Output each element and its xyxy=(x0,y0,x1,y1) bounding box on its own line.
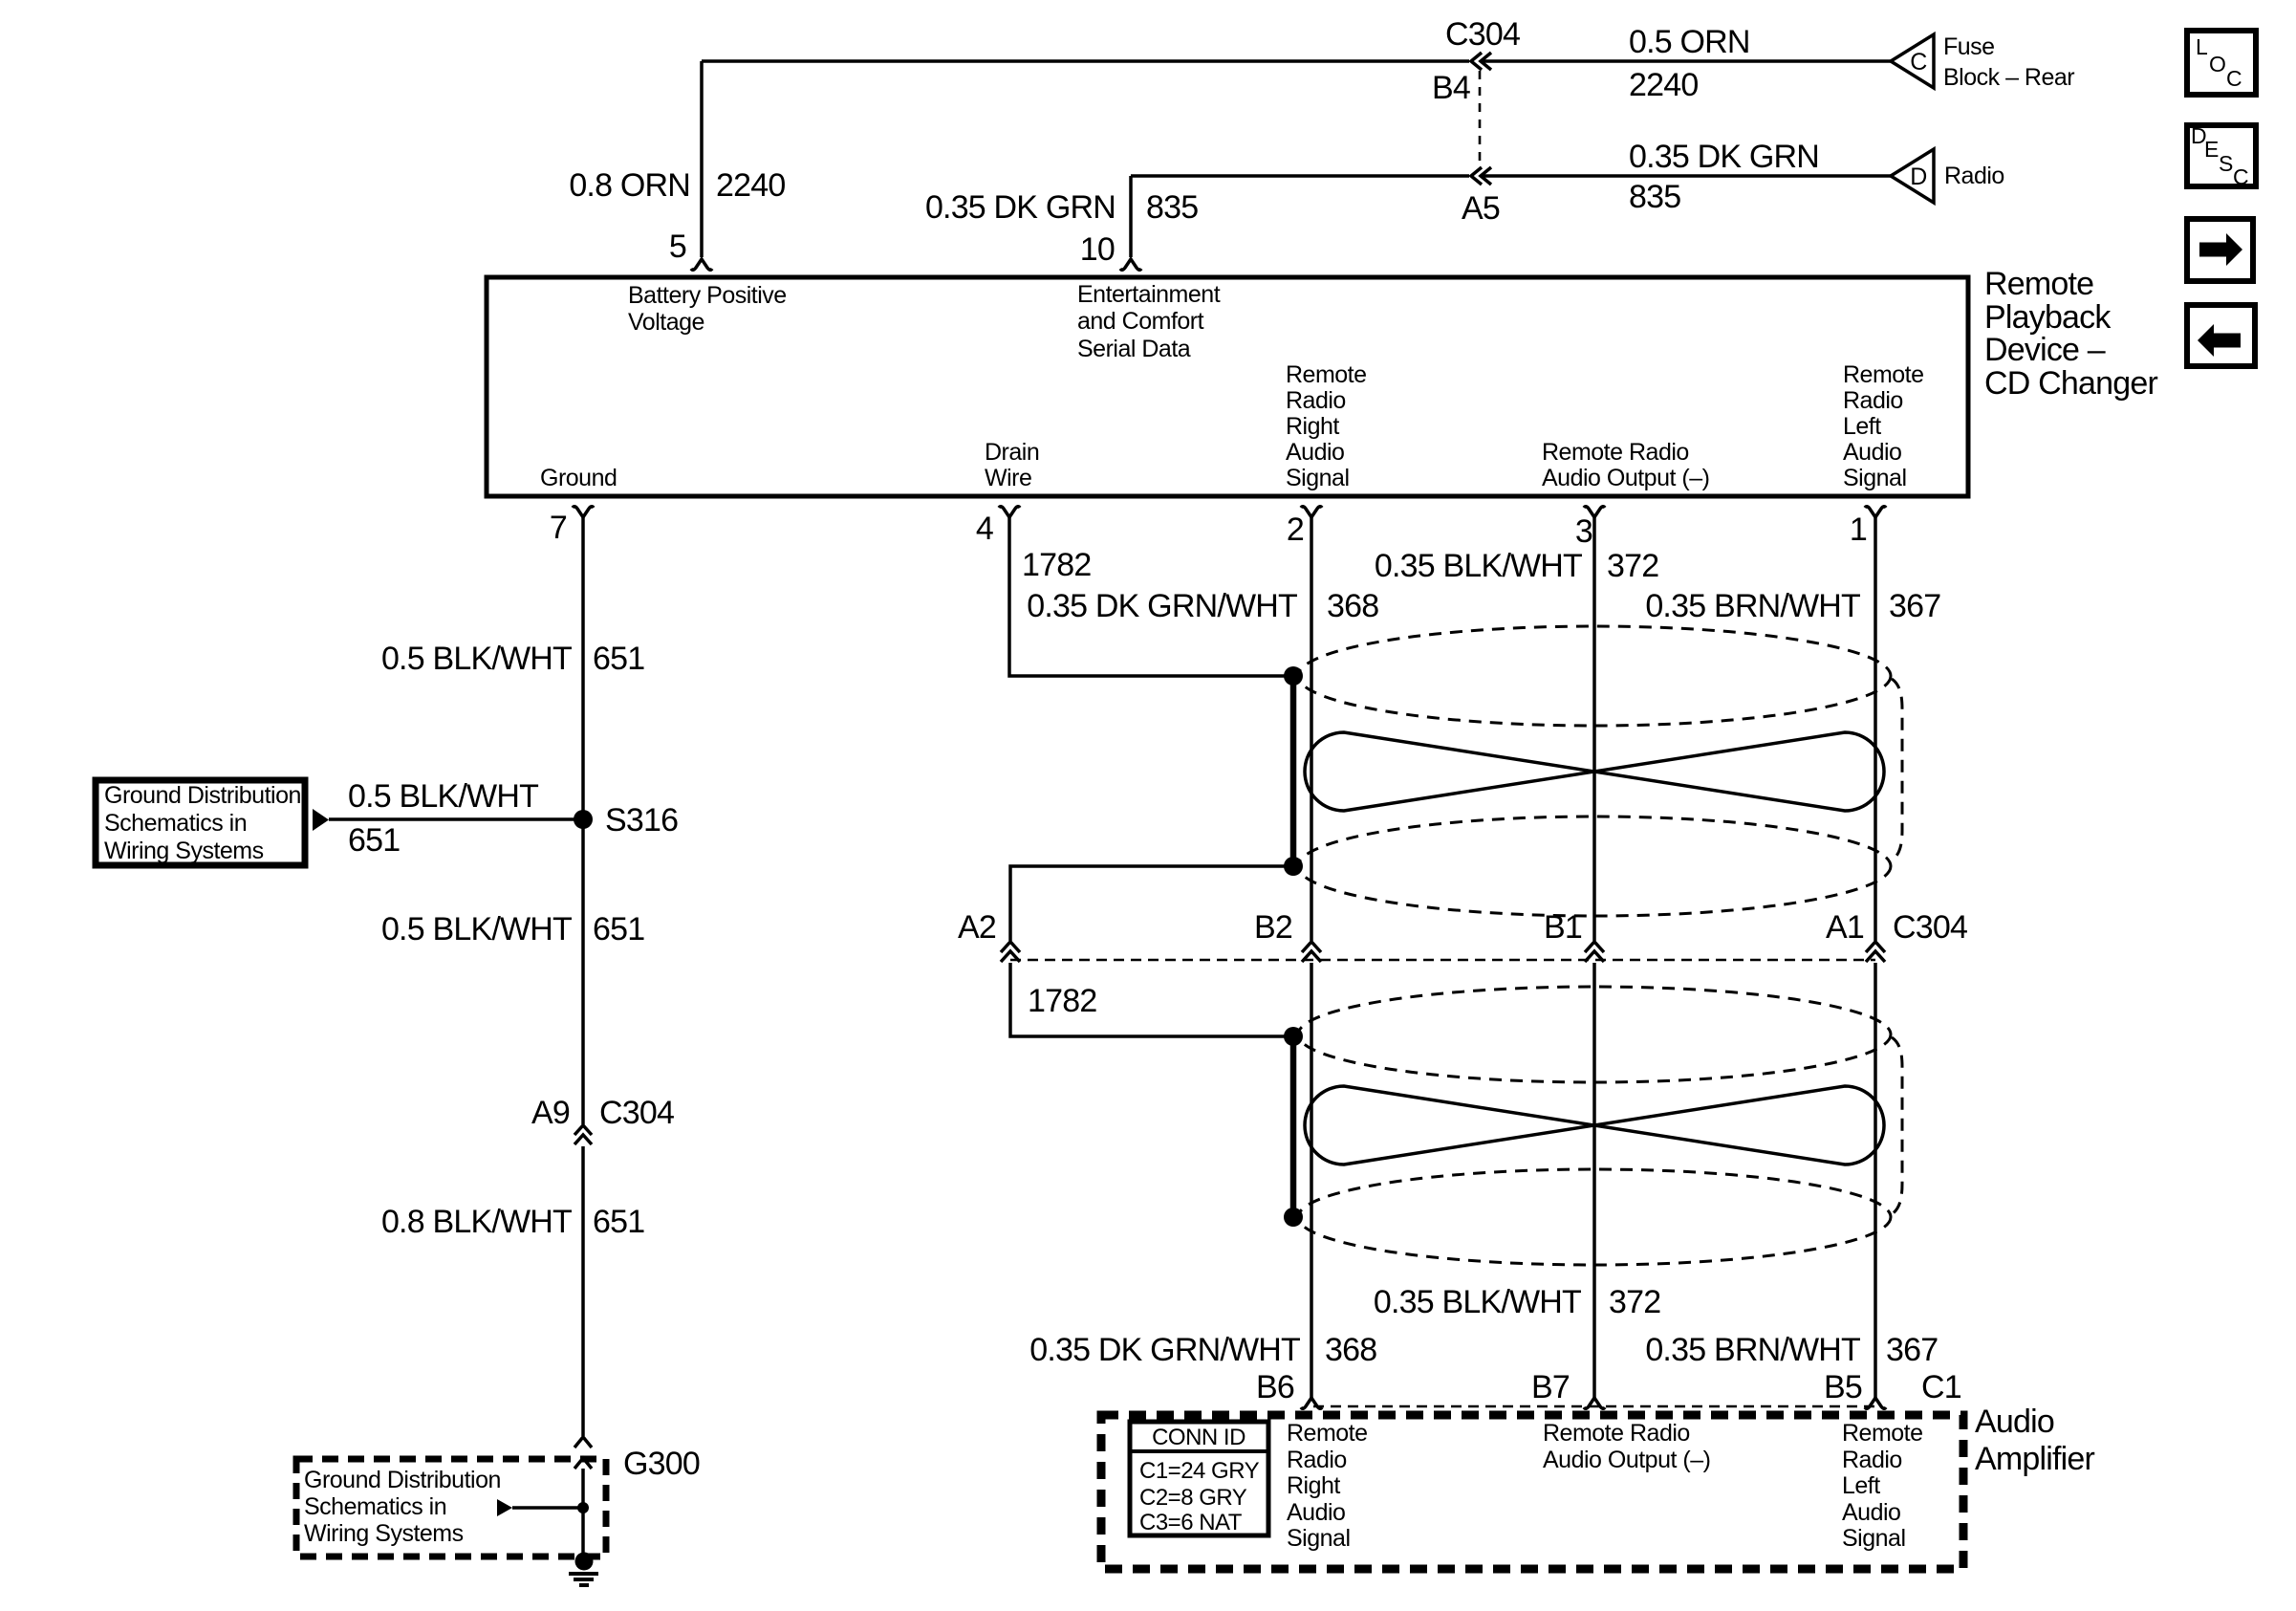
svg-text:Right: Right xyxy=(1287,1472,1340,1499)
svg-text:C1=24 GRY: C1=24 GRY xyxy=(1139,1458,1260,1484)
svg-text:368: 368 xyxy=(1327,588,1378,624)
junction dot upper shield top xyxy=(1284,666,1303,686)
svg-text:Signal: Signal xyxy=(1843,465,1907,491)
svg-text:Voltage: Voltage xyxy=(628,309,704,336)
svg-text:7: 7 xyxy=(550,510,567,546)
svg-text:B2: B2 xyxy=(1254,909,1292,946)
terminal B6 xyxy=(1301,1398,1322,1408)
svg-text:Audio: Audio xyxy=(1975,1404,2054,1440)
svg-text:2: 2 xyxy=(1287,512,1304,548)
terminal pin 5 xyxy=(691,259,712,270)
wire G300 branch from ground distribution xyxy=(512,1506,583,1510)
svg-text:C3=6 NAT: C3=6 NAT xyxy=(1139,1510,1243,1535)
svg-text:Remote Radio: Remote Radio xyxy=(1543,1420,1690,1447)
svg-text:Signal: Signal xyxy=(1287,1525,1351,1552)
svg-text:B4: B4 xyxy=(1432,70,1470,106)
splice S316 dot xyxy=(574,810,593,829)
svg-text:Radio: Radio xyxy=(1286,387,1346,414)
svg-text:O: O xyxy=(2209,52,2226,76)
svg-text:C: C xyxy=(2233,164,2249,189)
wire 3 lower xyxy=(1592,963,1596,1398)
svg-text:5: 5 xyxy=(669,229,686,265)
svg-text:C1: C1 xyxy=(1921,1369,1961,1405)
svg-text:Audio: Audio xyxy=(1286,439,1344,466)
terminal pin 10 xyxy=(1120,259,1141,270)
svg-text:Remote Radio: Remote Radio xyxy=(1542,439,1689,466)
svg-text:0.35 DK GRN: 0.35 DK GRN xyxy=(1629,139,1819,175)
ground G300 dot xyxy=(575,1553,594,1571)
svg-text:651: 651 xyxy=(348,822,400,859)
svg-text:Right: Right xyxy=(1286,413,1339,440)
terminal B5 xyxy=(1865,1398,1886,1408)
svg-text:Wiring Systems: Wiring Systems xyxy=(104,838,264,864)
svg-text:Remote: Remote xyxy=(1287,1420,1368,1447)
pointer triangle upper reference xyxy=(313,809,329,831)
svg-text:Schematics in: Schematics in xyxy=(304,1493,446,1520)
svg-text:E: E xyxy=(2204,137,2219,162)
legend LOC box xyxy=(2187,31,2256,95)
connector A9 C304 chevrons xyxy=(574,1125,592,1144)
svg-text:Radio: Radio xyxy=(1843,387,1903,414)
svg-text:Audio: Audio xyxy=(1287,1499,1345,1526)
svg-text:and Comfort: and Comfort xyxy=(1077,308,1204,335)
svg-text:B5: B5 xyxy=(1824,1369,1862,1405)
svg-text:C304: C304 xyxy=(599,1095,674,1131)
CD changer device box xyxy=(487,277,1968,496)
junction dot upper shield bottom xyxy=(1284,857,1303,876)
svg-text:Amplifier: Amplifier xyxy=(1975,1441,2095,1477)
junction dot lower shield top xyxy=(1284,1027,1303,1046)
svg-text:835: 835 xyxy=(1146,189,1198,226)
svg-text:C304: C304 xyxy=(1445,16,1520,53)
svg-text:Audio: Audio xyxy=(1843,439,1901,466)
svg-text:0.35 BLK/WHT: 0.35 BLK/WHT xyxy=(1375,548,1582,584)
svg-text:Entertainment: Entertainment xyxy=(1077,281,1221,308)
wire fuse block segment xyxy=(1482,59,1891,63)
svg-text:B6: B6 xyxy=(1256,1369,1294,1405)
svg-text:Left: Left xyxy=(1843,413,1881,440)
svg-text:A5: A5 xyxy=(1462,190,1500,227)
svg-text:B1: B1 xyxy=(1544,909,1582,946)
svg-text:CONN ID: CONN ID xyxy=(1152,1425,1245,1450)
svg-text:Remote: Remote xyxy=(1842,1420,1923,1447)
svg-text:Wiring Systems: Wiring Systems xyxy=(304,1520,464,1547)
svg-text:0.5 BLK/WHT: 0.5 BLK/WHT xyxy=(381,641,572,677)
terminal pin 3 xyxy=(1584,507,1605,517)
connector chevrons A1 xyxy=(1866,942,1885,962)
junction dot G300 branch xyxy=(577,1502,589,1513)
svg-text:368: 368 xyxy=(1325,1332,1376,1368)
svg-text:4: 4 xyxy=(976,511,993,547)
wire ground G300 to ground dot xyxy=(581,1469,585,1553)
audio amplifier dashed box xyxy=(1101,1415,1963,1569)
upper shield top ellipse xyxy=(1298,626,1891,726)
svg-text:2240: 2240 xyxy=(1629,67,1698,103)
svg-text:CD Changer: CD Changer xyxy=(1984,365,2157,402)
ground distribution reference box upper xyxy=(96,780,305,865)
svg-text:0.8 BLK/WHT: 0.8 BLK/WHT xyxy=(381,1204,572,1240)
connector chevrons A2 xyxy=(1001,942,1020,962)
lower shield bottom ellipse xyxy=(1298,1169,1891,1265)
svg-text:A1: A1 xyxy=(1826,909,1864,946)
svg-text:C304: C304 xyxy=(1893,909,1967,946)
lower shield top ellipse xyxy=(1298,987,1891,1082)
terminal pin 1 xyxy=(1865,507,1886,517)
wire 3 upper (372 BLK/WHT) xyxy=(1592,517,1596,941)
CONN ID header rule xyxy=(1130,1449,1268,1453)
svg-text:835: 835 xyxy=(1629,179,1680,215)
upper shield bottom ellipse xyxy=(1298,816,1891,916)
drain bus lower shield xyxy=(1290,1036,1297,1217)
svg-text:367: 367 xyxy=(1889,588,1940,624)
svg-text:C2=8 GRY: C2=8 GRY xyxy=(1139,1485,1247,1511)
svg-text:Audio Output (–): Audio Output (–) xyxy=(1542,465,1709,491)
wire radio segment to radio triangle xyxy=(1482,174,1891,178)
wire drain pin 4 to upper shield xyxy=(1009,517,1293,676)
triangle connector D radio xyxy=(1891,149,1934,203)
svg-text:1782: 1782 xyxy=(1022,547,1091,583)
svg-text:3: 3 xyxy=(1575,513,1592,550)
connector chevrons B2 xyxy=(1302,942,1321,962)
svg-text:Signal: Signal xyxy=(1286,465,1350,491)
svg-text:Serial Data: Serial Data xyxy=(1077,336,1191,362)
svg-text:C: C xyxy=(2226,66,2242,91)
svg-text:1782: 1782 xyxy=(1028,983,1096,1019)
svg-text:S316: S316 xyxy=(605,802,678,838)
wire serial data vertical drop to pin 10 xyxy=(1129,176,1133,257)
connector C304 B4 chevron xyxy=(1471,53,1491,70)
upper twisted pair bowtie xyxy=(1305,732,1884,811)
legend DESC box xyxy=(2187,125,2256,186)
svg-text:0.5 BLK/WHT: 0.5 BLK/WHT xyxy=(381,911,572,947)
svg-text:0.5 BLK/WHT: 0.5 BLK/WHT xyxy=(348,778,538,815)
svg-text:B7: B7 xyxy=(1531,1369,1570,1405)
drain bus upper shield xyxy=(1290,676,1297,866)
svg-text:651: 651 xyxy=(593,911,644,947)
CONN ID table box xyxy=(1130,1422,1268,1535)
wire radio serial data left segment xyxy=(1131,174,1469,178)
svg-text:651: 651 xyxy=(593,1204,644,1240)
svg-text:372: 372 xyxy=(1607,548,1658,584)
svg-text:Remote: Remote xyxy=(1984,266,2093,302)
wire 2 upper (368 DK GRN/WHT) xyxy=(1310,517,1313,941)
svg-text:C: C xyxy=(1910,49,1927,76)
pointer triangle lower reference xyxy=(497,1499,512,1516)
svg-text:D: D xyxy=(1910,163,1927,190)
svg-text:Ground: Ground xyxy=(540,465,617,491)
svg-text:0.35 DK GRN: 0.35 DK GRN xyxy=(925,189,1116,226)
svg-text:A9: A9 xyxy=(531,1095,570,1131)
connector chevrons B1 xyxy=(1585,942,1604,962)
svg-text:Audio Output (–): Audio Output (–) xyxy=(1543,1447,1710,1473)
connector C304 dashed link B4-A5 xyxy=(1479,71,1482,166)
connector C1 dashed line xyxy=(1313,1405,1875,1407)
wire S316 branch from ground distribution xyxy=(329,817,583,821)
svg-text:A2: A2 xyxy=(958,909,996,946)
svg-text:0.35 BRN/WHT: 0.35 BRN/WHT xyxy=(1645,1332,1860,1368)
svg-text:Battery Positive: Battery Positive xyxy=(628,282,787,309)
lower shield right cap xyxy=(1892,1037,1902,1214)
ground distribution reference box lower (dashed) xyxy=(296,1459,606,1557)
svg-text:Fuse: Fuse xyxy=(1943,33,1995,60)
ground symbol lines xyxy=(569,1574,598,1585)
svg-text:651: 651 xyxy=(593,641,644,677)
wire ground A9 to G300 xyxy=(581,1146,585,1436)
svg-text:Playback: Playback xyxy=(1984,299,2112,336)
connector C304 A5 chevron xyxy=(1471,167,1491,185)
svg-text:Left: Left xyxy=(1842,1472,1880,1499)
connector G300 chevrons xyxy=(574,1437,592,1469)
svg-text:0.8 ORN: 0.8 ORN xyxy=(569,167,690,204)
legend arrow right box xyxy=(2187,219,2253,281)
svg-text:S: S xyxy=(2219,151,2233,176)
terminal pin 7 xyxy=(573,507,594,517)
wire 1 upper (367 BRN/WHT) xyxy=(1874,517,1877,941)
legend arrow left box xyxy=(2187,305,2255,366)
svg-text:Signal: Signal xyxy=(1842,1525,1906,1552)
svg-text:Block – Rear: Block – Rear xyxy=(1943,64,2074,91)
svg-text:Drain: Drain xyxy=(985,439,1039,466)
svg-text:G300: G300 xyxy=(623,1446,700,1482)
svg-text:L: L xyxy=(2196,34,2208,59)
wire A2 to lower shield xyxy=(1010,963,1293,1036)
svg-text:0.35 BLK/WHT: 0.35 BLK/WHT xyxy=(1374,1284,1581,1320)
wire 2 lower xyxy=(1310,963,1313,1398)
svg-text:Radio: Radio xyxy=(1287,1447,1347,1473)
svg-text:Radio: Radio xyxy=(1944,163,2004,189)
terminal pin 2 xyxy=(1301,507,1322,517)
junction dot lower shield bottom xyxy=(1284,1208,1303,1227)
upper shield right cap xyxy=(1892,679,1902,860)
terminal B7 xyxy=(1584,1398,1605,1408)
svg-text:Audio: Audio xyxy=(1842,1499,1900,1526)
svg-text:367: 367 xyxy=(1886,1332,1938,1368)
svg-text:Schematics in: Schematics in xyxy=(104,810,247,837)
svg-text:372: 372 xyxy=(1609,1284,1660,1320)
triangle connector C fuse block rear xyxy=(1891,34,1934,88)
svg-text:Ground Distribution: Ground Distribution xyxy=(104,782,301,809)
svg-text:10: 10 xyxy=(1080,231,1115,268)
svg-text:2240: 2240 xyxy=(716,167,785,204)
connector C304 dashed line xyxy=(1010,959,1875,961)
lower twisted pair bowtie xyxy=(1305,1086,1884,1165)
wire battery positive vertical drop to pin 5 xyxy=(700,61,704,257)
svg-text:0.35 DK GRN/WHT: 0.35 DK GRN/WHT xyxy=(1029,1332,1300,1368)
wire upper shield to A2 xyxy=(1010,866,1293,941)
svg-text:Remote: Remote xyxy=(1843,361,1924,388)
svg-text:Radio: Radio xyxy=(1842,1447,1902,1473)
svg-text:0.5 ORN: 0.5 ORN xyxy=(1629,24,1750,60)
svg-text:Device –: Device – xyxy=(1984,332,2106,368)
svg-text:0.35 DK GRN/WHT: 0.35 DK GRN/WHT xyxy=(1027,588,1297,624)
svg-text:Remote: Remote xyxy=(1286,361,1367,388)
wire 1 lower xyxy=(1874,963,1877,1398)
wire ground pin7 to A9 xyxy=(581,517,585,1124)
svg-text:1: 1 xyxy=(1850,512,1867,548)
svg-text:Ground Distribution: Ground Distribution xyxy=(304,1467,501,1493)
svg-text:Wire: Wire xyxy=(985,465,1031,491)
terminal pin 4 xyxy=(999,507,1020,517)
svg-text:0.35 BRN/WHT: 0.35 BRN/WHT xyxy=(1645,588,1860,624)
wire battery positive horizontal (0.8 ORN 2240 to fuse block) xyxy=(702,59,1469,63)
